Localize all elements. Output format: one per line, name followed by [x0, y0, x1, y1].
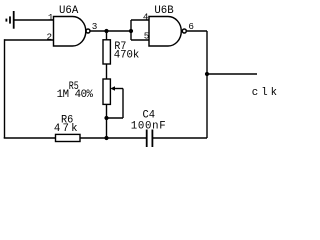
svg-text:2: 2 — [47, 31, 53, 42]
svg-text:4: 4 — [143, 12, 149, 23]
svg-text:U6A: U6A — [59, 5, 79, 17]
svg-text:3: 3 — [92, 21, 98, 32]
svg-text:clk: clk — [252, 87, 280, 99]
svg-text:6: 6 — [188, 21, 194, 32]
svg-text:5: 5 — [144, 31, 150, 42]
svg-text:470k: 470k — [114, 49, 140, 61]
svg-text:47k: 47k — [54, 123, 80, 135]
svg-text:1M 40%: 1M 40% — [57, 89, 94, 101]
svg-text:100nF: 100nF — [131, 121, 167, 133]
svg-text:1: 1 — [48, 12, 54, 23]
svg-text:U6B: U6B — [154, 5, 174, 17]
